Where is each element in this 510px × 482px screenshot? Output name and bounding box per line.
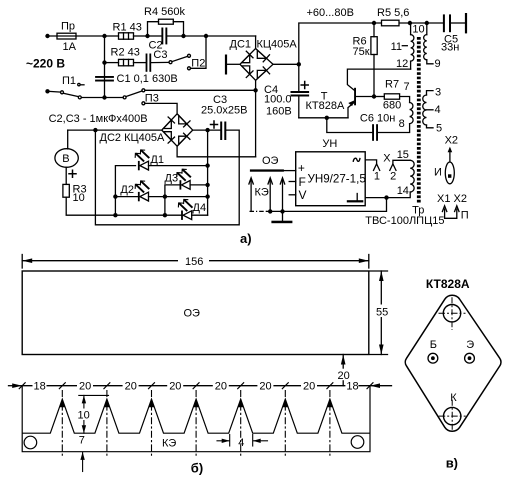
svg-text:1А: 1А: [63, 41, 77, 53]
wire: [48, 35, 105, 37]
resistor R1 43: [119, 33, 134, 39]
svg-text:15: 15: [397, 149, 409, 161]
svg-text:а): а): [240, 231, 252, 246]
node: left input terminal bottom: [45, 89, 49, 93]
diode ДС2 VD1 (upper-left): [163, 120, 171, 129]
dim 156: [21, 255, 23, 269]
diode ДС1 VD4 (lower-right): [257, 70, 266, 78]
resistor R3 10: [63, 184, 69, 197]
plate ОЭ drawing: [22, 271, 369, 355]
wire DS1 bottom column down: [255, 80, 257, 157]
svg-text:18: 18: [34, 380, 46, 392]
svg-text:П1: П1: [62, 75, 76, 87]
svg-text:5: 5: [436, 122, 442, 134]
wire pin2 to winding 15: [393, 160, 410, 163]
svg-text:+60...80В: +60...80В: [307, 7, 354, 19]
svg-text:Д2: Д2: [120, 184, 134, 196]
DS1 input bar: [225, 55, 227, 75]
emitter wire: [299, 117, 348, 119]
node: [425, 21, 429, 25]
winding 10-9: [426, 23, 428, 35]
node: [384, 195, 388, 199]
wire to DS1 top: [255, 36, 257, 49]
LED Д3: [165, 185, 180, 215]
svg-text:R4 560k: R4 560k: [144, 6, 185, 18]
svg-text:F: F: [299, 175, 306, 189]
node: [325, 116, 329, 120]
svg-text:В: В: [62, 153, 69, 165]
svg-text:ОЭ: ОЭ: [184, 308, 201, 320]
svg-text:КЭ: КЭ: [255, 186, 269, 198]
node: [113, 194, 117, 198]
LED Д2: [115, 196, 138, 198]
capacitor C3: [134, 62, 147, 64]
svg-text:Д1: Д1: [150, 154, 164, 166]
svg-text:Б: Б: [430, 339, 437, 351]
svg-text:4: 4: [435, 104, 441, 116]
svg-text:10: 10: [78, 410, 90, 422]
svg-text:4: 4: [238, 437, 244, 449]
svg-text:R5 5,6: R5 5,6: [377, 7, 409, 19]
ionizer electrode И: [445, 162, 454, 184]
svg-text:33н: 33н: [441, 41, 459, 53]
switch П3: [105, 97, 124, 99]
+60...80В rail: [299, 23, 444, 64]
resistor R4 560k: [148, 22, 159, 36]
svg-text:8: 8: [399, 118, 405, 130]
svg-text:П3: П3: [145, 92, 159, 104]
capacitor C2: [148, 35, 162, 37]
node: [145, 34, 149, 38]
svg-text:1: 1: [374, 170, 380, 182]
node: [372, 21, 376, 25]
resistor R6 75к: [373, 23, 375, 37]
svg-text:Х1 Х2: Х1 Х2: [437, 193, 467, 205]
wire bar to bridge: [227, 63, 240, 65]
LED Д4: [178, 200, 191, 220]
svg-text:20: 20: [303, 380, 315, 392]
winding 10-11-12: [410, 23, 412, 35]
svg-text:75к: 75к: [353, 46, 370, 58]
svg-text:20: 20: [79, 380, 91, 392]
mounting holes: [24, 436, 37, 449]
svg-text:11: 11: [391, 41, 402, 53]
capacitor C1 0,1 630В: [95, 76, 114, 78]
wire: [184, 35, 256, 37]
node: [408, 21, 412, 25]
svg-text:И: И: [434, 167, 442, 179]
node: [163, 194, 167, 198]
winding 15-14: [410, 160, 414, 192]
svg-text:V: V: [299, 188, 307, 202]
wire П3 lower to DS2 top: [145, 103, 177, 113]
svg-text:100.0: 100.0: [264, 94, 292, 106]
svg-text:~220 В: ~220 В: [26, 57, 65, 71]
svg-text:Э: Э: [466, 339, 474, 351]
svg-text:Д3: Д3: [165, 173, 179, 185]
wire: [134, 35, 148, 37]
left rail of LED net: [115, 166, 135, 216]
diode ДС1 VD3 (lower-left): [242, 66, 250, 74]
diode ДС1 VD1 (upper-left): [242, 55, 250, 63]
LED Д1: [135, 150, 148, 170]
svg-text:П2: П2: [191, 57, 205, 69]
comb КЭ outline: [22, 386, 370, 452]
svg-text:КЭ: КЭ: [162, 437, 176, 449]
capacitor C6 10н: [327, 118, 373, 133]
needle tips: [60, 399, 65, 407]
chassis dash-dot: [250, 210, 269, 212]
node: [253, 88, 257, 92]
winding 3-4-5: [427, 91, 434, 95]
module left stubs F V: [289, 181, 296, 183]
svg-text:ДС1: ДС1: [230, 38, 252, 50]
resistor R7 680: [374, 96, 384, 98]
wire DS1 right to +rail corner: [273, 63, 299, 65]
svg-text:+: +: [298, 161, 305, 175]
diode ДС1 VD2 (upper-right): [257, 50, 266, 58]
resistor R5 5,6: [382, 20, 400, 26]
svg-text:ДС2 КЦ405А: ДС2 КЦ405А: [100, 132, 165, 144]
svg-text:55: 55: [376, 306, 388, 318]
capacitor C4 100.0 160В: [298, 64, 300, 91]
comb dim line: [9, 385, 22, 387]
svg-text:С3: С3: [153, 49, 167, 61]
node: [113, 213, 117, 217]
КЭ arrows: [268, 209, 272, 213]
diode bridge ДС1 КЦ405А: [240, 49, 273, 81]
svg-text:156: 156: [185, 256, 203, 268]
svg-text:С1 0,1 630В: С1 0,1 630В: [117, 73, 178, 85]
svg-text:КТ828А: КТ828А: [426, 277, 470, 291]
transformer Тр core: [417, 37, 421, 203]
resistor R2 43: [105, 62, 119, 64]
svg-text:R2 43: R2 43: [111, 47, 140, 59]
svg-text:7: 7: [404, 81, 410, 93]
node base: [372, 94, 376, 98]
package hole bottom: [444, 407, 461, 424]
package hole top: [443, 305, 460, 322]
dim 20 right: [342, 355, 344, 386]
svg-text:Д4: Д4: [193, 202, 207, 214]
node junction after fuse: [102, 34, 106, 38]
wire ~ pin to connector pin 1: [365, 160, 376, 164]
terminal bar X2 output: [465, 13, 467, 33]
switch П2: [169, 61, 172, 64]
switch П1: [48, 90, 61, 93]
svg-text:10: 10: [73, 192, 85, 204]
svg-text:3: 3: [435, 86, 441, 98]
capacitor C5 33н: [443, 14, 445, 32]
node: left input terminal top: [45, 34, 49, 38]
svg-text:б): б): [191, 461, 203, 476]
svg-text:УН9/27-1,5: УН9/27-1,5: [308, 172, 366, 185]
wire DS2 bottom elbow: [177, 146, 256, 157]
voltmeter В: [67, 130, 69, 149]
wire stub to chassis: [267, 198, 387, 212]
wire C3 loop right-bottom-left: [95, 130, 239, 225]
node: [181, 34, 185, 38]
svg-text:Х: Х: [383, 153, 391, 165]
wire П3 upper to DS1 bottom column: [145, 89, 256, 91]
pin Б: [428, 353, 438, 363]
wire left column: [104, 36, 106, 98]
svg-text:в): в): [446, 456, 458, 471]
dim 55: [370, 270, 388, 272]
node: [297, 62, 301, 66]
diode bridge ДС2 КЦ405А: [162, 114, 193, 146]
top wire to DS2: [68, 129, 162, 131]
svg-text:18: 18: [346, 380, 358, 392]
wire R3 bottom row: [66, 197, 181, 215]
svg-text:2: 2: [390, 170, 396, 182]
svg-text:С6 10н: С6 10н: [360, 112, 395, 124]
svg-text:R7: R7: [385, 79, 399, 91]
svg-text:160В: 160В: [266, 106, 292, 118]
svg-text:Х2: Х2: [445, 134, 458, 146]
pin Э: [465, 353, 475, 363]
svg-text:R1 43: R1 43: [113, 22, 142, 34]
fuse Пр 1А: [57, 33, 76, 39]
node: [204, 34, 208, 38]
svg-text:КЦ405А: КЦ405А: [257, 39, 298, 51]
svg-text:9: 9: [435, 58, 441, 70]
wire P2 branch: [190, 36, 206, 68]
svg-text:К: К: [450, 392, 457, 404]
wire R7 to pin 7: [400, 97, 410, 103]
node: [102, 60, 106, 64]
svg-text:ТВС-100ЛПЦ15: ТВС-100ЛПЦ15: [365, 215, 444, 227]
transistor Т КТ828А: [354, 88, 356, 106]
electrode ОЭ thick bar: [250, 169, 284, 171]
wire 14 to module ground pin: [365, 192, 410, 198]
svg-text:7: 7: [79, 435, 85, 447]
capacitor C3 25.0x25В electrolytic: [205, 128, 209, 132]
winding 7-8: [410, 103, 414, 124]
svg-text:680: 680: [383, 100, 401, 112]
dim 4: [229, 435, 231, 447]
svg-text:20: 20: [215, 380, 227, 392]
dim 10: [79, 394, 109, 396]
comb КЭ centerlines: [62, 390, 330, 458]
module УН9/27-1,5: [296, 152, 366, 206]
svg-text:14: 14: [397, 185, 409, 197]
node: [163, 213, 167, 217]
connector pin 2: [390, 164, 396, 171]
svg-text:С2,С3 - 1мкФх400В: С2,С3 - 1мкФх400В: [49, 113, 148, 125]
connector pin 1: [374, 164, 380, 171]
node: [102, 95, 106, 99]
svg-text:25.0х25В: 25.0х25В: [201, 105, 247, 117]
svg-text:Пр: Пр: [61, 21, 75, 33]
wire: [105, 35, 119, 37]
node: [93, 128, 97, 132]
right rail of LED net: [207, 130, 209, 215]
svg-text:П: П: [461, 210, 469, 222]
diode ДС2 VD2 (upper-right): [179, 115, 187, 124]
svg-text:20: 20: [169, 380, 181, 392]
svg-text:12: 12: [396, 58, 408, 70]
svg-text:20: 20: [125, 380, 137, 392]
svg-text:КТ828А: КТ828А: [306, 100, 345, 112]
wire to module +: [284, 170, 296, 172]
svg-text:20: 20: [259, 380, 271, 392]
module ground pin symbol: [356, 194, 358, 201]
svg-text:10: 10: [412, 24, 424, 36]
ground: [282, 211, 284, 220]
svg-text:ОЭ: ОЭ: [262, 155, 279, 167]
svg-text:УН: УН: [322, 138, 337, 150]
